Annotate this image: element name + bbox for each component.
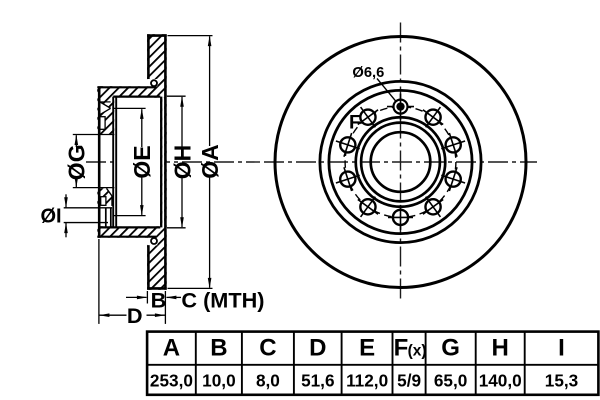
svg-text:253,0: 253,0 [150, 371, 193, 391]
svg-text:D: D [309, 335, 326, 362]
svg-text:112,0: 112,0 [346, 371, 388, 391]
svg-text:ØA: ØA [197, 144, 223, 179]
svg-text:A: A [163, 335, 180, 362]
svg-text:F: F [349, 111, 361, 133]
svg-text:C: C [259, 335, 276, 362]
svg-text:ØI: ØI [41, 206, 62, 228]
svg-text:B: B [151, 287, 167, 312]
svg-text:ØG: ØG [64, 144, 90, 180]
svg-text:ØH: ØH [169, 145, 195, 180]
svg-text:Ø6,6: Ø6,6 [352, 65, 384, 81]
svg-text:51,6: 51,6 [301, 371, 334, 391]
svg-text:10,0: 10,0 [202, 371, 235, 391]
svg-text:I: I [558, 335, 565, 362]
svg-text:8,0: 8,0 [256, 371, 280, 391]
svg-text:B: B [210, 335, 227, 362]
svg-text:E: E [359, 335, 375, 362]
svg-text:G: G [441, 335, 460, 362]
svg-text:ØE: ØE [129, 145, 155, 178]
svg-text:65,0: 65,0 [434, 371, 467, 391]
svg-text:C (MTH): C (MTH) [181, 287, 264, 312]
svg-text:140,0: 140,0 [479, 371, 522, 391]
svg-text:H: H [492, 335, 509, 362]
svg-text:D: D [127, 303, 143, 328]
svg-text:15,3: 15,3 [545, 371, 578, 391]
svg-text:F: F [394, 335, 409, 362]
svg-text:(x): (x) [408, 343, 427, 360]
svg-text:5/9: 5/9 [397, 371, 421, 391]
